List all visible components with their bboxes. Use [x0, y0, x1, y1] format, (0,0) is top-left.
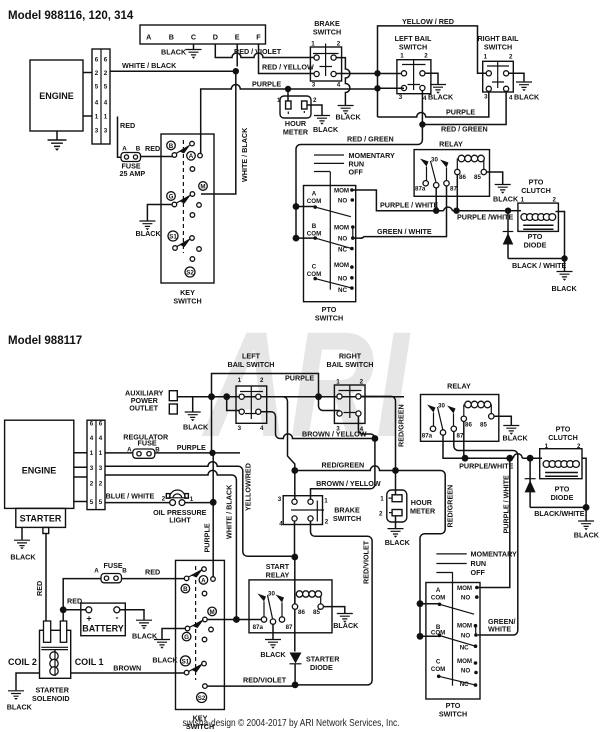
- node black/white dot: [561, 255, 567, 261]
- wire left bail pin4 down RED/GREEN: [421, 91, 423, 125]
- footer copyright: [183, 717, 400, 729]
- svg-text:RED / GREEN: RED / GREEN: [347, 135, 394, 144]
- svg-text:2: 2: [260, 377, 264, 384]
- svg-text:FUSE: FUSE: [138, 438, 157, 447]
- svg-text:2: 2: [509, 54, 513, 61]
- wire to ground black/white: [564, 259, 566, 272]
- svg-text:+: +: [86, 614, 91, 624]
- wire brake pin2 to ground with hops: [336, 58, 350, 105]
- svg-text:4: 4: [279, 521, 283, 528]
- svg-text:4: 4: [360, 426, 364, 433]
- svg-text:FUSE: FUSE: [104, 561, 123, 570]
- svg-text:2: 2: [325, 518, 329, 525]
- legend momentary run off top: [314, 151, 395, 177]
- node A COM dot bottom: [417, 600, 424, 607]
- svg-text:E: E: [235, 33, 240, 42]
- wire hour meter 2 to ground: [395, 516, 397, 528]
- pto diode: [503, 211, 547, 259]
- svg-text:NO: NO: [461, 595, 470, 602]
- wire F vertical and RED/YELLOW to brake pin3: [259, 44, 317, 74]
- svg-text:C: C: [312, 264, 317, 271]
- engine bottom: [5, 420, 74, 508]
- svg-text:S2: S2: [186, 269, 194, 276]
- svg-text:87a: 87a: [415, 186, 426, 193]
- svg-text:PURPLE: PURPLE: [177, 443, 206, 452]
- svg-text:NC: NC: [338, 287, 347, 294]
- svg-text:RED/VIOLET: RED/VIOLET: [243, 676, 287, 685]
- aux power outlet: [125, 389, 177, 415]
- svg-text:6: 6: [99, 421, 103, 428]
- svg-text:DIODE: DIODE: [524, 241, 547, 250]
- ground black/white: [557, 272, 573, 281]
- ground relay bottom: [503, 426, 519, 435]
- svg-text:4: 4: [260, 425, 264, 432]
- node B COM dot bottom: [417, 633, 424, 640]
- wire key G to ground: [147, 205, 172, 222]
- hour meter bottom: [379, 490, 436, 522]
- svg-text:S1: S1: [182, 658, 190, 665]
- svg-text:Model 988117: Model 988117: [8, 335, 82, 347]
- hop purple/white over 87 wire: [444, 207, 453, 211]
- svg-text:BLACK / WHITE: BLACK / WHITE: [512, 261, 567, 270]
- wire relay 30 to purple/white start: [443, 435, 510, 458]
- svg-text:OUTLET: OUTLET: [129, 404, 158, 413]
- starter: [16, 508, 66, 533]
- svg-text:3: 3: [99, 465, 103, 472]
- svg-text:BLACK: BLACK: [136, 229, 162, 238]
- left bail switch bottom: [228, 352, 275, 433]
- wire right bail pin2 red/green down: [361, 396, 396, 470]
- ground brake top: [338, 106, 354, 115]
- wire brake pin4 to left bail pin1: [336, 73, 404, 75]
- wire black/white bottom: [530, 506, 586, 508]
- svg-text:87: 87: [450, 186, 457, 193]
- wire key S2 contact red/violet: [207, 685, 295, 687]
- svg-text:RED/VIOLET: RED/VIOLET: [362, 540, 371, 584]
- wire brown/yellow down to brake pin1 riser: [311, 439, 375, 500]
- svg-text:MOM: MOM: [457, 658, 472, 665]
- wire hour meter pin2 to ground: [307, 105, 322, 115]
- node left bail pin3 riser dot: [223, 393, 230, 400]
- wire key G to ground bottom: [162, 629, 185, 640]
- svg-text:A: A: [201, 577, 206, 584]
- svg-text:GREEN / WHITE: GREEN / WHITE: [377, 227, 432, 236]
- legend momentary run off bottom: [436, 550, 517, 578]
- node red/violet dot: [292, 682, 299, 689]
- starter diode: [290, 653, 341, 673]
- svg-text:PURPLE: PURPLE: [252, 80, 281, 89]
- wire engine pin1: [83, 115, 92, 117]
- svg-text:3: 3: [312, 82, 316, 89]
- svg-text:BLACK: BLACK: [503, 434, 529, 443]
- svg-text:WHITE: WHITE: [488, 625, 511, 634]
- svg-text:1: 1: [324, 497, 328, 504]
- pto clutch bottom: [540, 425, 582, 479]
- svg-text:2: 2: [424, 53, 428, 60]
- wire C to ground: [193, 44, 195, 49]
- watermark ARI: [201, 300, 410, 468]
- svg-text:1: 1: [400, 53, 404, 60]
- svg-text:85: 85: [474, 174, 481, 181]
- wire yellow/red riser and top run: [378, 26, 487, 117]
- svg-text:ENGINE: ENGINE: [39, 91, 74, 101]
- wire fuse B to key switch B contact: [141, 156, 173, 158]
- wire diode to red/violet dot: [294, 664, 296, 685]
- wire RED pin1 to fuse: [118, 117, 123, 158]
- svg-text:NO: NO: [338, 198, 347, 205]
- wire yellow/red from pin3 hop purple bend down: [105, 462, 295, 557]
- svg-text:SWITCH: SWITCH: [439, 710, 467, 719]
- node brake-bail junction dots: [374, 70, 380, 76]
- svg-text:RED: RED: [145, 568, 160, 577]
- svg-text:1: 1: [99, 450, 103, 457]
- wire pto feed vertical: [295, 207, 297, 239]
- key switch top: [161, 134, 214, 306]
- wire right bail pin4 to brown/yellow dot: [358, 414, 375, 439]
- svg-text:5: 5: [90, 499, 94, 506]
- svg-text:DIODE: DIODE: [551, 493, 574, 502]
- svg-text:2: 2: [104, 70, 108, 77]
- wire purple/white down to MOM A: [478, 458, 510, 587]
- svg-text:COM: COM: [307, 231, 321, 238]
- svg-text:COIL 1: COIL 1: [75, 657, 104, 667]
- svg-text:B: B: [183, 586, 188, 593]
- svg-text:RED: RED: [35, 581, 44, 596]
- regulator fuse: [123, 433, 169, 459]
- wire WHITE/BLACK horizontal pin2 to E vertical: [110, 70, 236, 72]
- node relay30 dot bottom: [462, 455, 469, 462]
- svg-text:RED/GREEN: RED/GREEN: [322, 461, 365, 470]
- right bail switch top: [477, 34, 519, 102]
- svg-text:COIL 2: COIL 2: [8, 657, 37, 667]
- svg-text:SWITCH: SWITCH: [333, 514, 361, 523]
- node purple hour meter dot: [285, 86, 291, 92]
- wire starter RED down: [45, 534, 47, 628]
- svg-text:RED: RED: [67, 597, 82, 606]
- wire black/white: [508, 258, 565, 260]
- svg-text:METER: METER: [283, 128, 309, 137]
- wire RED/GREEN right bail to junction: [422, 91, 506, 125]
- ground starter: [14, 540, 30, 549]
- hop purple/white over green/white: [513, 454, 522, 459]
- svg-text:30: 30: [268, 591, 275, 598]
- svg-text:1: 1: [90, 450, 94, 457]
- svg-text:RELAY: RELAY: [447, 382, 471, 391]
- svg-text:RED: RED: [120, 121, 135, 130]
- ground hour meter bottom: [388, 529, 404, 538]
- svg-text:BROWN / YELLOW: BROWN / YELLOW: [316, 479, 381, 488]
- wire left bail pin2 to ground: [425, 73, 439, 84]
- ground relay top: [495, 185, 511, 194]
- svg-text:LIGHT: LIGHT: [169, 516, 191, 525]
- svg-text:M: M: [210, 609, 215, 616]
- svg-text:SWITCH: SWITCH: [484, 43, 512, 52]
- battery: [81, 603, 126, 636]
- svg-text:4: 4: [90, 435, 94, 442]
- svg-text:87: 87: [286, 624, 293, 631]
- svg-text:BLACK: BLACK: [260, 650, 286, 659]
- svg-text:BLACK: BLACK: [493, 195, 519, 204]
- svg-text:2: 2: [379, 511, 383, 518]
- wire bw dot to ground: [585, 507, 587, 520]
- svg-text:30: 30: [438, 403, 445, 410]
- wire relay 86 drop: [463, 422, 465, 459]
- brake switch bottom: [278, 496, 361, 528]
- wire pto feed A COM: [296, 206, 315, 208]
- svg-text:F: F: [256, 33, 261, 42]
- wire left bail pin3 to junction: [378, 87, 405, 89]
- svg-text:85: 85: [480, 422, 487, 429]
- svg-text:6: 6: [95, 57, 99, 64]
- svg-text:4: 4: [423, 95, 427, 102]
- wire engine pins: [74, 453, 87, 502]
- svg-text:2: 2: [313, 97, 317, 104]
- svg-text:4: 4: [337, 82, 341, 89]
- node red/green left dot: [291, 467, 298, 474]
- wire fuse right to key B: [122, 578, 185, 580]
- svg-text:OFF: OFF: [471, 568, 486, 577]
- wire pin3 riser: [227, 397, 242, 411]
- wire purple top run left bail riser: [212, 374, 319, 453]
- ground solenoid: [8, 691, 24, 700]
- node purple oil light dot: [210, 499, 217, 506]
- wire red dot to battery plus: [63, 609, 86, 611]
- svg-text:A: A: [94, 567, 99, 574]
- svg-text:Model 988116, 120, 314: Model 988116, 120, 314: [8, 10, 134, 22]
- wire purple vertical to key: [212, 453, 214, 579]
- wire relay 86 to purple/white dot: [456, 175, 458, 211]
- svg-text:YELLOW/RED: YELLOW/RED: [244, 463, 253, 511]
- svg-text:86: 86: [465, 422, 472, 429]
- svg-text:ENGINE: ENGINE: [22, 466, 57, 476]
- relay bottom: [421, 382, 499, 442]
- wire purple/white continue to clutch: [522, 457, 542, 459]
- svg-text:4: 4: [99, 435, 103, 442]
- wire red/green to hour meter: [395, 471, 397, 495]
- svg-text:4: 4: [104, 100, 108, 107]
- svg-text:1: 1: [277, 97, 281, 104]
- wire brake pin4 down to yr junction: [294, 521, 296, 557]
- svg-text:PURPLE / WHITE: PURPLE / WHITE: [380, 201, 439, 210]
- wire NO B green/white to relay 87: [353, 186, 447, 238]
- svg-text:25 AMP: 25 AMP: [120, 169, 146, 178]
- ground key G bottom: [154, 640, 170, 649]
- svg-text:COM: COM: [431, 666, 445, 673]
- svg-text:5: 5: [104, 84, 108, 91]
- svg-text:CLUTCH: CLUTCH: [548, 433, 578, 442]
- svg-text:NO: NO: [338, 235, 347, 242]
- wire pto feed B COM: [296, 237, 315, 239]
- ground start relay 85: [337, 614, 353, 623]
- svg-text:2: 2: [360, 379, 364, 386]
- right bail switch bottom: [327, 352, 374, 434]
- wire blue/white pin5 to oil light: [105, 502, 170, 504]
- ground key G: [139, 221, 155, 230]
- svg-text:MOM: MOM: [334, 224, 349, 231]
- svg-text:MOM: MOM: [457, 622, 472, 629]
- node clutch diode dot: [505, 208, 511, 214]
- pto switch bottom: [426, 573, 480, 719]
- pto clutch top: [508, 178, 558, 232]
- svg-text:3: 3: [238, 425, 242, 432]
- wire outlet to purple dot with ground tap: [177, 397, 211, 412]
- key switch bottom: [176, 560, 225, 731]
- svg-text:BLACK: BLACK: [7, 703, 33, 712]
- fuse 25 AMP: [120, 146, 146, 179]
- wire engine pin2: [83, 72, 92, 74]
- node purple leftbail dot: [209, 450, 215, 456]
- svg-text:ARI: ARI: [201, 300, 410, 468]
- svg-text:B: B: [122, 567, 127, 574]
- svg-text:NO: NO: [338, 275, 347, 282]
- svg-text:G: G: [169, 193, 174, 200]
- svg-text:A: A: [312, 191, 317, 198]
- node right bail feed dot: [315, 393, 322, 400]
- wire yr junction down through start relay 86 to diode: [294, 557, 296, 652]
- svg-text:swisha-design © 2004-2017 by A: swisha-design © 2004-2017 by ARI Network…: [183, 717, 400, 729]
- svg-text:BAIL SWITCH: BAIL SWITCH: [327, 360, 374, 369]
- wire hour meter pin1 drop: [287, 89, 289, 101]
- wire starter to ground: [21, 527, 23, 539]
- node A COM dot: [293, 203, 300, 210]
- svg-text:-: -: [116, 613, 119, 623]
- svg-text:B: B: [169, 33, 174, 42]
- wire clutch pin2 to black/white: [556, 212, 565, 261]
- node E junction dot: [233, 68, 239, 74]
- wire brake pin3 feed: [294, 471, 296, 500]
- node purple/white dot2: [506, 455, 513, 462]
- svg-text:B: B: [169, 143, 174, 150]
- svg-text:3: 3: [104, 128, 108, 135]
- svg-text:BLACK: BLACK: [10, 553, 36, 562]
- relay top: [414, 140, 489, 197]
- svg-text:MOM: MOM: [457, 585, 472, 592]
- svg-text:A: A: [189, 153, 194, 160]
- oil pressure light: [153, 490, 207, 524]
- ground hour meter top: [314, 116, 330, 125]
- svg-text:RED / GREEN: RED / GREEN: [441, 125, 488, 134]
- svg-text:RED / YELLOW: RED / YELLOW: [262, 63, 314, 72]
- ground connector C: [186, 50, 202, 59]
- svg-text:MOM: MOM: [334, 188, 349, 195]
- svg-text:3: 3: [336, 426, 340, 433]
- svg-text:RUN: RUN: [471, 559, 487, 568]
- svg-text:86: 86: [459, 174, 466, 181]
- svg-text:WHITE / BLACK: WHITE / BLACK: [122, 61, 177, 70]
- svg-text:BROWN / YELLOW: BROWN / YELLOW: [302, 430, 367, 439]
- svg-text:3: 3: [399, 94, 403, 101]
- wire left bail pin4 brown/yellow: [261, 412, 375, 439]
- wire relay 85 to ground: [487, 172, 503, 184]
- svg-text:4: 4: [509, 95, 513, 102]
- svg-text:BLACK: BLACK: [161, 48, 187, 57]
- wire red/green horizontal with hop: [295, 466, 445, 604]
- svg-text:RED/GREEN: RED/GREEN: [446, 485, 455, 528]
- svg-text:BLACK: BLACK: [428, 93, 454, 102]
- wire pto feed B COM bottom: [420, 635, 440, 637]
- svg-text:STARTER: STARTER: [20, 514, 62, 524]
- svg-text:PURPLE/WHITE: PURPLE/WHITE: [459, 461, 514, 470]
- start relay: [249, 562, 332, 633]
- svg-text:BLACK: BLACK: [333, 621, 359, 630]
- engine: [30, 60, 83, 131]
- svg-text:OFF: OFF: [349, 168, 364, 177]
- svg-text:2: 2: [90, 480, 94, 487]
- node purple/white diode dot: [527, 455, 534, 462]
- svg-text:C: C: [436, 659, 441, 666]
- svg-text:SWITCH: SWITCH: [315, 314, 343, 323]
- svg-text:1: 1: [311, 41, 315, 48]
- connector A-F: [140, 25, 266, 44]
- svg-text:2: 2: [95, 70, 99, 77]
- svg-text:6: 6: [104, 57, 108, 64]
- wire fuse left to red dot: [63, 579, 101, 610]
- svg-text:BLUE / WHITE: BLUE / WHITE: [106, 491, 155, 500]
- svg-text:6: 6: [90, 421, 94, 428]
- wire oil light to purple dot: [185, 502, 213, 504]
- svg-text:CLUTCH: CLUTCH: [521, 186, 551, 195]
- wire MOM A to purple/white: [352, 190, 508, 211]
- svg-text:BLACK: BLACK: [514, 93, 540, 102]
- svg-text:BLACK: BLACK: [552, 284, 578, 293]
- svg-text:30: 30: [431, 157, 438, 164]
- svg-text:BLACK/WHITE: BLACK/WHITE: [534, 509, 585, 518]
- node red/green right dot: [392, 467, 399, 474]
- wire brown solenoid to key S1: [71, 672, 185, 674]
- svg-text:PURPLE: PURPLE: [446, 108, 475, 117]
- svg-text:S2: S2: [198, 695, 206, 702]
- purple run to right bail: [319, 397, 340, 411]
- node yellow/red junction dot: [291, 554, 298, 561]
- svg-text:86: 86: [298, 609, 305, 616]
- wire red/green down to pto feed: [296, 125, 422, 207]
- svg-text:A: A: [122, 146, 127, 153]
- wire white/black from pin2 hop purple bend down to M: [105, 470, 236, 619]
- svg-text:BLACK: BLACK: [183, 423, 209, 432]
- ground battery: [136, 620, 152, 629]
- node battery red dot: [60, 606, 67, 613]
- svg-text:NO: NO: [461, 633, 470, 640]
- svg-text:DIODE: DIODE: [310, 663, 333, 672]
- node relay 30 dot: [433, 208, 439, 214]
- connector J1: [92, 49, 110, 144]
- ground black/white bottom: [578, 521, 594, 530]
- svg-text:BROWN: BROWN: [113, 663, 141, 672]
- wire solenoid to ground: [16, 673, 40, 690]
- wire key M to start relay 87a: [207, 619, 264, 621]
- wire brake pin2 red/violet: [295, 521, 372, 685]
- wire D vertical and RED/VIOLET run with hops over E and F: [215, 44, 316, 58]
- svg-text:3: 3: [95, 128, 99, 135]
- node B COM dot: [293, 235, 300, 242]
- svg-text:C: C: [191, 33, 196, 42]
- wire red dot down to solenoid: [62, 610, 64, 622]
- svg-text:MOM: MOM: [334, 262, 349, 269]
- svg-text:YELLOW / RED: YELLOW / RED: [402, 17, 454, 26]
- svg-text:1: 1: [238, 377, 242, 384]
- svg-text:B: B: [312, 223, 317, 230]
- svg-text:S1: S1: [169, 233, 177, 240]
- pto switch top: [304, 172, 356, 323]
- wire pto feed A COM bottom: [420, 603, 440, 605]
- node red/green junction: [419, 121, 425, 127]
- ground left bail top: [430, 85, 446, 94]
- svg-text:COM: COM: [307, 198, 321, 205]
- ground start relay 30: [265, 640, 281, 649]
- ground engine: [48, 140, 67, 151]
- wire E vertical to WB junction then down hop purple down to M corner: [201, 44, 237, 194]
- svg-text:NC: NC: [460, 645, 469, 652]
